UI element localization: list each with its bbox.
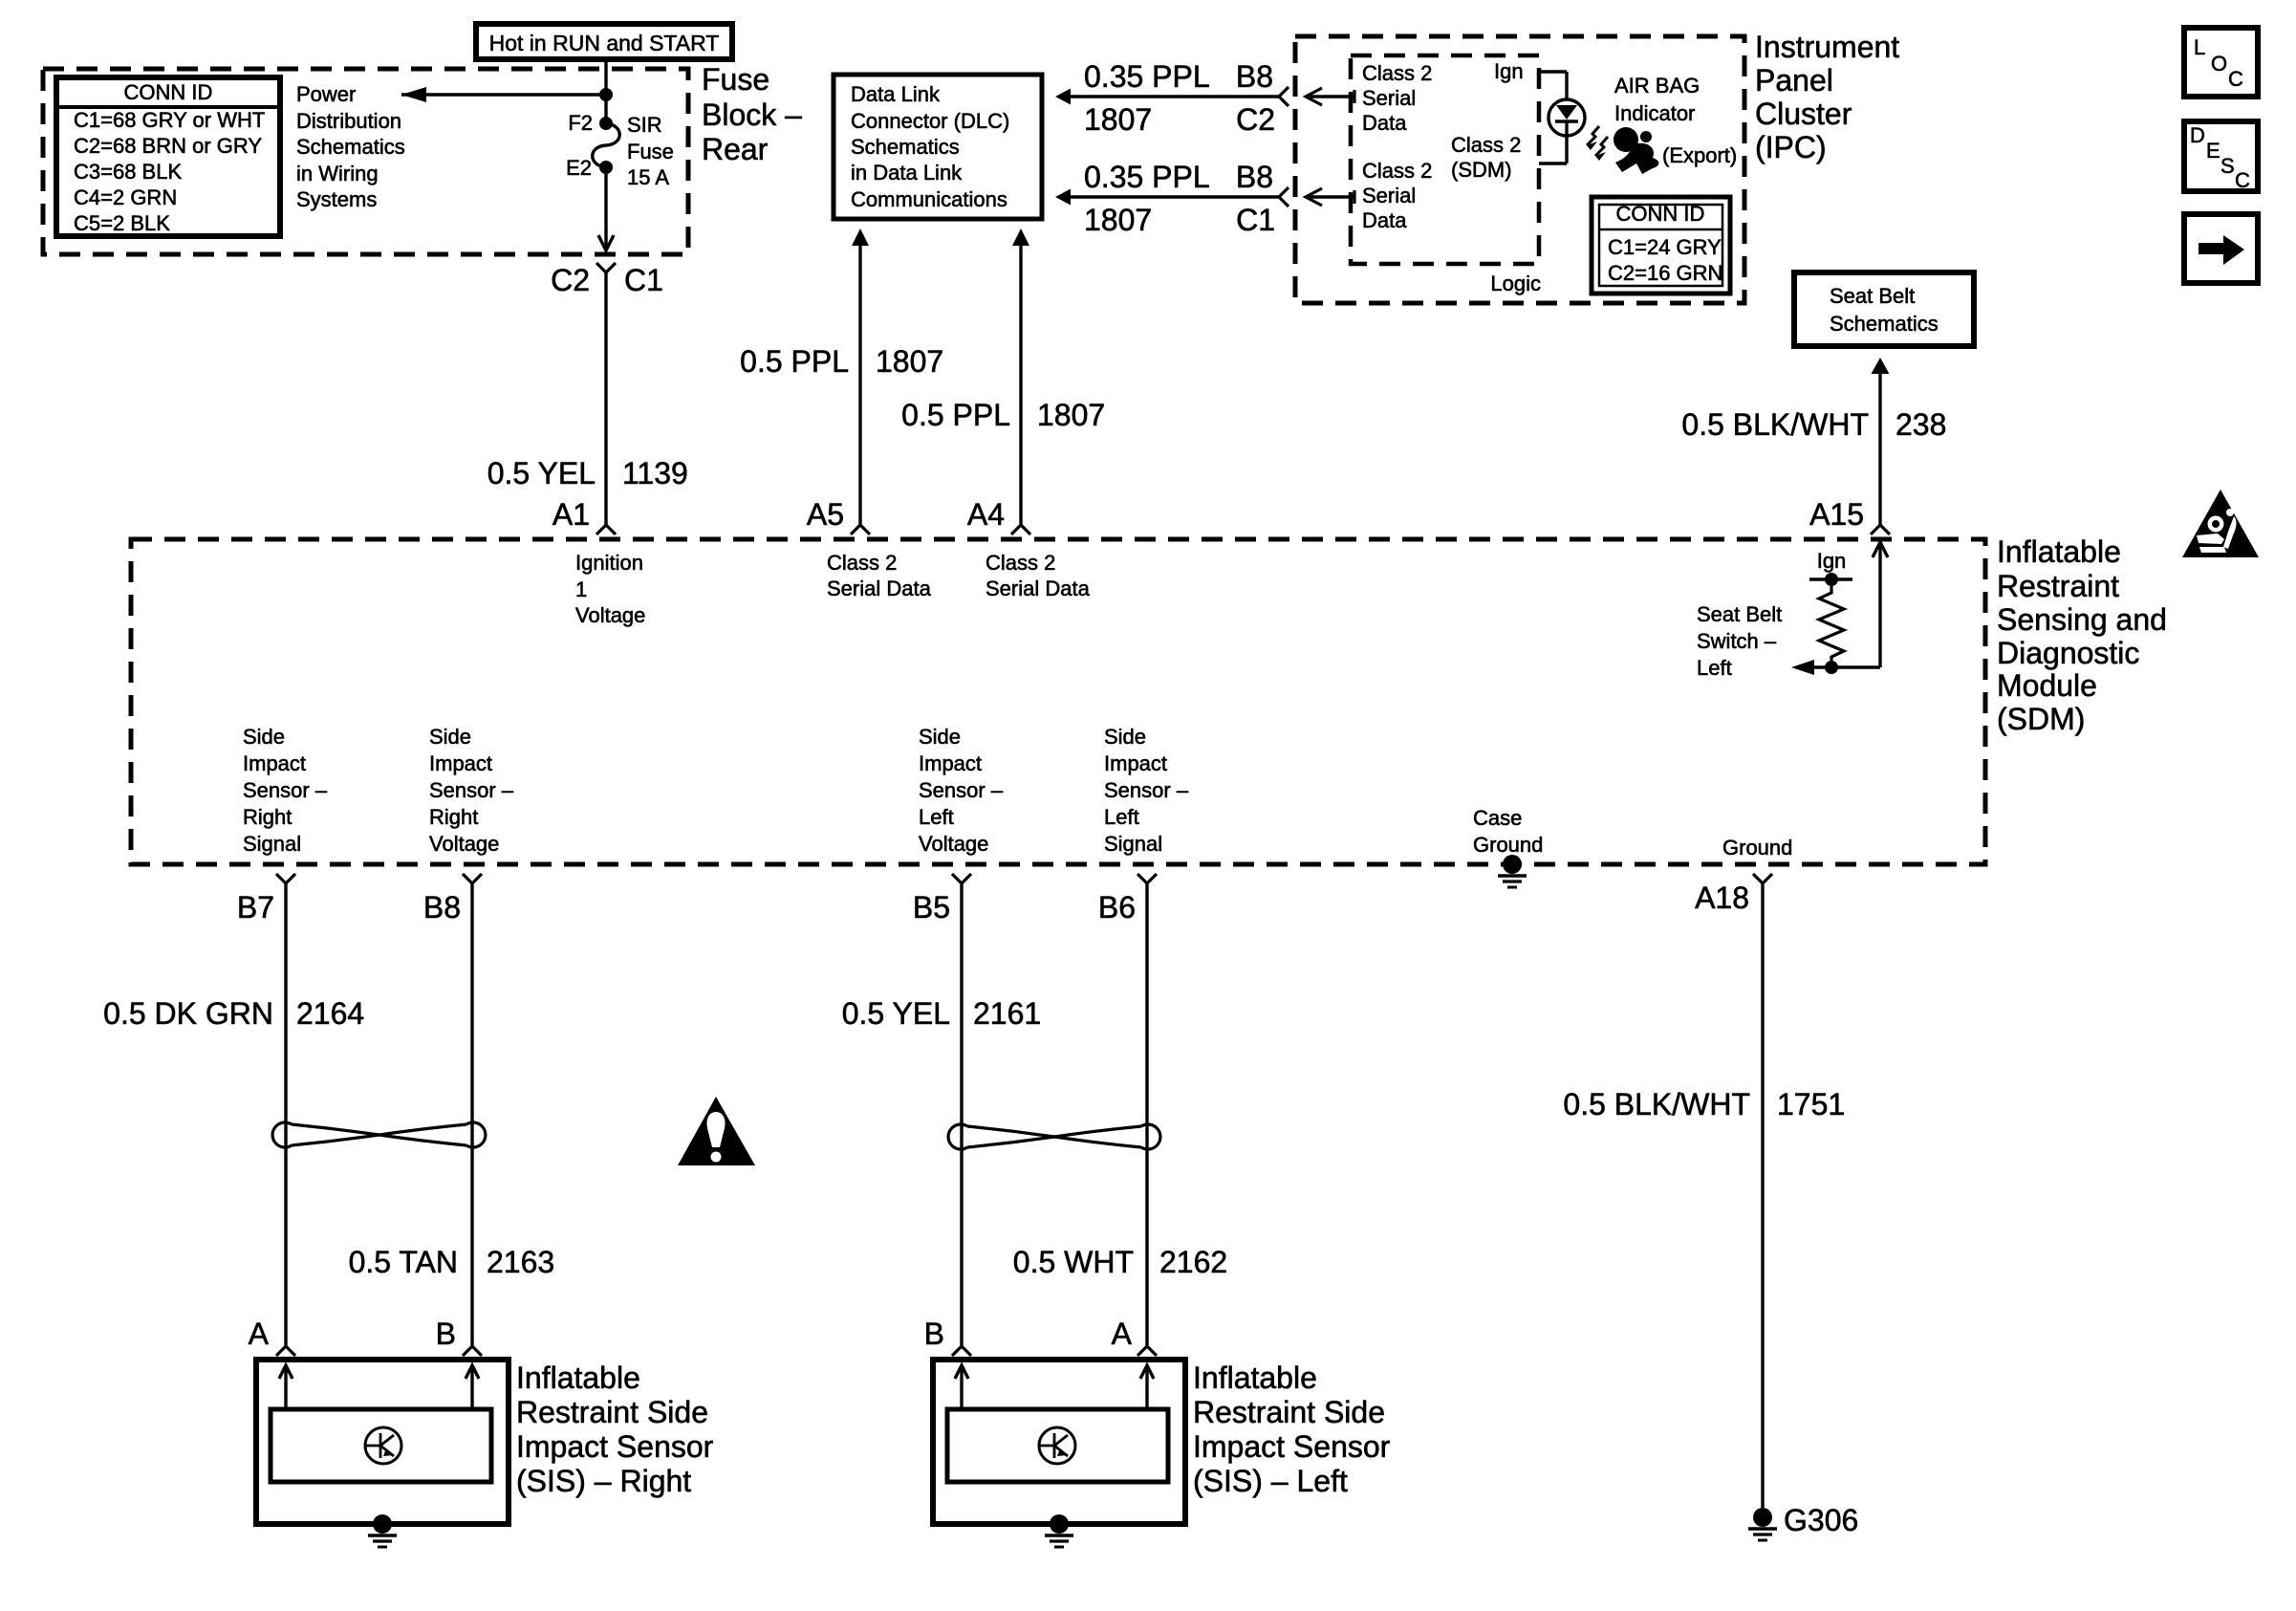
wire 1807 PPL from SDM A5 to DLC (858, 244, 861, 525)
wire 1807 PPL from SDM A4 to DLC (1019, 244, 1022, 525)
svg-text:0.5 TAN: 0.5 TAN (349, 1245, 458, 1279)
svg-text:in Wiring: in Wiring (296, 162, 379, 185)
svg-text:Restraint Side: Restraint Side (516, 1395, 708, 1429)
wire 2161 YEL B5 to SIS left B (960, 883, 963, 1345)
svg-text:in Data Link: in Data Link (851, 161, 963, 185)
svg-text:Module: Module (1997, 668, 2097, 703)
SDM internal up arrow at A15 (1878, 542, 1881, 667)
svg-text:Panel: Panel (1755, 63, 1833, 98)
IPC CONN ID table (1592, 197, 1730, 294)
SIS right internal arrows (284, 1367, 287, 1409)
wire 1807 PPL from IPC C2 to DLC (top) (1067, 95, 1279, 98)
svg-text:SIR: SIR (627, 113, 662, 137)
svg-text:2163: 2163 (487, 1245, 554, 1279)
svg-text:Sensor –: Sensor – (1104, 778, 1189, 802)
svg-text:Restraint: Restraint (1997, 569, 2119, 603)
case ground symbol (1503, 855, 1522, 874)
fuse terminal E2 (599, 161, 613, 174)
svg-text:Serial Data: Serial Data (986, 577, 1091, 600)
pin A5 fork (851, 525, 870, 534)
svg-text:(SDM): (SDM) (1451, 158, 1512, 182)
Seat Belt Schematics box (1794, 272, 1974, 346)
svg-text:Impact Sensor: Impact Sensor (516, 1429, 714, 1464)
IPC logic dashed box (1351, 55, 1539, 264)
svg-text:Communications: Communications (851, 187, 1007, 211)
svg-text:Schematics: Schematics (1830, 312, 1939, 336)
svg-text:A: A (1112, 1317, 1133, 1351)
svg-text:0.5 YEL: 0.5 YEL (487, 456, 596, 490)
svg-text:1139: 1139 (622, 456, 688, 490)
svg-text:Seat Belt: Seat Belt (1830, 284, 1915, 308)
svg-text:L: L (2194, 35, 2205, 59)
Inflatable Restraint Side Impact Sensor (SIS) Right box (256, 1360, 509, 1524)
svg-text:Schematics: Schematics (296, 135, 405, 159)
twisted pair (right sensor) (272, 1122, 292, 1147)
pin B7 fork (276, 874, 295, 883)
air bag indicator icon (1614, 127, 1638, 152)
svg-text:B8: B8 (423, 890, 461, 925)
ground G306 (1753, 1508, 1772, 1527)
svg-text:Voltage: Voltage (575, 603, 645, 627)
pin A1 fork (596, 525, 616, 534)
pin A18 fork (1753, 874, 1772, 883)
svg-text:C3=68 BLK: C3=68 BLK (74, 160, 182, 184)
svg-text:Sensor –: Sensor – (243, 778, 328, 802)
Instrument Panel Cluster dashed outline (1295, 36, 1744, 303)
svg-text:AIR BAG: AIR BAG (1614, 74, 1700, 98)
svg-text:CONN ID: CONN ID (124, 80, 213, 104)
wire lamp to Class 2 (SDM) (1565, 136, 1568, 163)
svg-text:E2: E2 (566, 156, 592, 180)
svg-text:C: C (2235, 168, 2250, 192)
svg-text:0.5 WHT: 0.5 WHT (1013, 1245, 1134, 1279)
pin A4 fork (1011, 525, 1030, 534)
svg-text:Systems: Systems (296, 187, 377, 211)
svg-text:C2: C2 (1236, 102, 1275, 137)
svg-text:Side: Side (919, 725, 961, 749)
svg-text:B8: B8 (1236, 160, 1273, 194)
svg-text:A5: A5 (807, 497, 844, 532)
Data Link Connector (DLC) box (834, 75, 1042, 219)
svg-text:A15: A15 (1809, 497, 1864, 532)
fuse block CONN ID table (56, 77, 280, 236)
svg-text:Side: Side (243, 725, 285, 749)
svg-text:Serial: Serial (1362, 86, 1416, 110)
fuse block dashed outline (43, 69, 688, 254)
svg-text:Indicator: Indicator (1614, 101, 1695, 125)
svg-text:Voltage: Voltage (919, 832, 988, 856)
node junction at fuse feed (599, 88, 613, 101)
svg-text:Sensor –: Sensor – (919, 778, 1004, 802)
IPC side arrow (top) (1310, 95, 1354, 98)
svg-text:C: C (2228, 67, 2243, 91)
svg-text:C5=2 BLK: C5=2 BLK (74, 211, 170, 235)
svg-text:1: 1 (575, 577, 587, 601)
SIS left pin A fork (1137, 1346, 1157, 1356)
svg-text:Schematics: Schematics (851, 135, 960, 159)
svg-text:C2: C2 (551, 263, 590, 297)
connector C2/C1 fork (596, 263, 616, 272)
wire resistor to A15 riser with arrow (1796, 665, 1880, 668)
power feed box "Hot in RUN and START" (476, 24, 732, 59)
svg-text:B5: B5 (913, 890, 950, 925)
svg-text:Ignition: Ignition (575, 551, 643, 575)
svg-text:C2=68 BRN or GRY: C2=68 BRN or GRY (74, 134, 262, 158)
SIS left case ground (1050, 1514, 1069, 1534)
SIS left sensor symbol (1039, 1427, 1075, 1464)
node at resistor bottom (1825, 661, 1838, 674)
svg-text:Left: Left (919, 805, 954, 829)
svg-text:S: S (2220, 154, 2235, 178)
forward arrow nav box (2184, 214, 2258, 283)
pin B8 fork (463, 874, 482, 883)
svg-text:Connector (DLC): Connector (DLC) (851, 109, 1009, 133)
svg-text:B6: B6 (1098, 890, 1136, 925)
svg-text:Switch –: Switch – (1697, 629, 1777, 653)
SIS right sensor symbol (365, 1427, 401, 1464)
svg-text:Ground: Ground (1722, 836, 1792, 860)
svg-text:2162: 2162 (1159, 1245, 1227, 1279)
svg-text:Voltage: Voltage (429, 832, 499, 856)
svg-text:Fuse: Fuse (627, 140, 674, 163)
pin A15 fork (1871, 525, 1890, 534)
LOC nav box (2184, 28, 2258, 97)
svg-text:(IPC): (IPC) (1755, 130, 1827, 164)
wire 238 BLK/WHT from SDM A15 to seat belt schematics (1878, 372, 1881, 525)
resistor seat belt switch-left (1819, 586, 1844, 667)
wire 1807 PPL from IPC C1 to DLC (bottom) (1067, 195, 1279, 198)
svg-text:Impact Sensor: Impact Sensor (1193, 1429, 1391, 1464)
svg-text:Ign: Ign (1494, 59, 1524, 83)
svg-text:Impact: Impact (429, 751, 492, 775)
wire 2163 TAN B8 to SIS right B (470, 883, 473, 1345)
lamp light rays (1587, 126, 1599, 145)
svg-text:Case: Case (1473, 806, 1522, 830)
svg-text:CONN ID: CONN ID (1616, 202, 1705, 226)
svg-text:A4: A4 (967, 497, 1005, 532)
svg-text:C1=68 GRY or WHT: C1=68 GRY or WHT (74, 108, 265, 132)
svg-text:C1=24 GRY: C1=24 GRY (1608, 235, 1722, 259)
svg-text:Restraint Side: Restraint Side (1193, 1395, 1385, 1429)
AIR BAG indicator lamp (1549, 99, 1585, 136)
svg-text:Ign: Ign (1817, 549, 1847, 573)
svg-text:Fuse: Fuse (702, 62, 769, 97)
svg-text:B7: B7 (237, 890, 274, 925)
svg-text:B: B (924, 1317, 944, 1351)
svg-text:Class 2: Class 2 (827, 551, 897, 575)
SIS left pin B fork (952, 1346, 971, 1356)
svg-text:238: 238 (1895, 407, 1946, 442)
wire from Hot box to fuse (604, 59, 607, 123)
svg-text:Data Link: Data Link (851, 82, 941, 106)
svg-text:Right: Right (429, 805, 478, 829)
svg-text:Right: Right (243, 805, 292, 829)
svg-text:Inflatable: Inflatable (1997, 534, 2121, 569)
svg-text:Side: Side (429, 725, 471, 749)
svg-text:C1: C1 (624, 263, 663, 297)
svg-text:2164: 2164 (296, 996, 364, 1031)
svg-text:Inflatable: Inflatable (1193, 1361, 1317, 1395)
wire 2162 WHT B6 to SIS left A (1145, 883, 1148, 1345)
svg-text:Diagnostic: Diagnostic (1997, 636, 2139, 670)
svg-text:C4=2 GRN: C4=2 GRN (74, 185, 177, 209)
svg-text:(SIS) – Right: (SIS) – Right (516, 1464, 691, 1498)
wire fuse output (604, 167, 607, 247)
svg-text:Class 2: Class 2 (1362, 61, 1432, 85)
svg-text:0.5 DK GRN: 0.5 DK GRN (103, 996, 273, 1031)
svg-text:Left: Left (1104, 805, 1139, 829)
svg-text:Sensing and: Sensing and (1997, 602, 2167, 637)
svg-text:Class 2: Class 2 (1451, 133, 1521, 157)
svg-text:Data: Data (1362, 208, 1407, 232)
svg-text:C2=16 GRN: C2=16 GRN (1608, 261, 1722, 285)
svg-text:A18: A18 (1695, 881, 1749, 915)
fuse SIR 15A terminal F2 (599, 117, 613, 130)
svg-text:Side: Side (1104, 725, 1146, 749)
svg-text:Power: Power (296, 82, 356, 106)
svg-text:Instrument: Instrument (1755, 30, 1899, 64)
svg-text:Serial Data: Serial Data (827, 577, 932, 600)
svg-text:Impact: Impact (919, 751, 982, 775)
wire Ign to indicator lamp (1539, 70, 1567, 73)
svg-text:(SIS) – Left: (SIS) – Left (1193, 1464, 1348, 1498)
svg-text:Data: Data (1362, 111, 1407, 135)
svg-text:G306: G306 (1784, 1503, 1858, 1537)
fuse element (593, 123, 620, 167)
SIS right pin B fork (463, 1346, 482, 1356)
svg-text:Sensor –: Sensor – (429, 778, 514, 802)
svg-text:Inflatable: Inflatable (516, 1361, 640, 1395)
svg-text:1807: 1807 (1037, 398, 1105, 432)
warning triangle (678, 1097, 755, 1165)
svg-text:Signal: Signal (243, 832, 301, 856)
svg-text:Seat Belt: Seat Belt (1697, 602, 1782, 626)
Inflatable Restraint Sensing and Diagnostic Module dashed outline (131, 539, 1985, 864)
svg-text:Logic: Logic (1490, 272, 1541, 295)
svg-text:Serial: Serial (1362, 184, 1416, 207)
wire 2164 DK GRN B7 to SIS right A (284, 883, 287, 1345)
svg-text:Impact: Impact (1104, 751, 1167, 775)
twisted pair (left sensor) (948, 1124, 967, 1149)
pin B6 fork (1137, 874, 1157, 883)
svg-text:(SDM): (SDM) (1997, 702, 2085, 736)
svg-text:0.5 YEL: 0.5 YEL (842, 996, 950, 1031)
airbag warning triangle (2182, 490, 2259, 557)
svg-text:Left: Left (1697, 656, 1732, 680)
svg-text:E: E (2206, 139, 2220, 163)
svg-text:Distribution: Distribution (296, 109, 401, 133)
svg-text:A1: A1 (552, 497, 590, 532)
SIS right case ground (373, 1514, 392, 1534)
svg-text:A: A (249, 1317, 270, 1351)
svg-text:(Export): (Export) (1662, 143, 1737, 167)
SIS left internal arrows (960, 1367, 963, 1409)
svg-text:Impact: Impact (243, 751, 306, 775)
svg-text:D: D (2190, 123, 2205, 147)
svg-text:B: B (436, 1317, 456, 1351)
svg-text:Class 2: Class 2 (1362, 159, 1432, 183)
pin B5 fork (952, 874, 971, 883)
svg-text:Cluster: Cluster (1755, 97, 1852, 131)
wire 1751 BLK/WHT A18 to G306 (1761, 883, 1764, 1508)
svg-text:1807: 1807 (876, 344, 943, 379)
svg-text:1807: 1807 (1084, 203, 1152, 237)
svg-text:O: O (2211, 52, 2227, 76)
svg-text:Class 2: Class 2 (986, 551, 1055, 575)
wire to power distribution with arrow (401, 93, 606, 96)
svg-text:0.35 PPL: 0.35 PPL (1084, 160, 1210, 194)
svg-text:Hot in RUN and START: Hot in RUN and START (489, 31, 720, 55)
svg-text:C1: C1 (1236, 203, 1275, 237)
svg-text:0.5 PPL: 0.5 PPL (740, 344, 849, 379)
svg-text:Ground: Ground (1473, 833, 1543, 857)
svg-text:Signal: Signal (1104, 832, 1162, 856)
svg-text:0.5 BLK/WHT: 0.5 BLK/WHT (1563, 1087, 1750, 1121)
svg-text:0.5 BLK/WHT: 0.5 BLK/WHT (1681, 407, 1869, 442)
SIS right pin A fork (276, 1346, 295, 1356)
svg-text:B8: B8 (1236, 59, 1273, 94)
svg-text:0.5 PPL: 0.5 PPL (901, 398, 1010, 432)
svg-text:Rear: Rear (702, 132, 769, 166)
DESC nav box (2184, 121, 2258, 191)
wire 1139 YEL from fuse to SDM A1 (604, 272, 607, 525)
svg-text:15 A: 15 A (627, 165, 669, 189)
svg-text:Block –: Block – (702, 98, 802, 132)
IPC side arrow (bottom) (1310, 195, 1354, 198)
svg-text:1807: 1807 (1084, 102, 1152, 137)
svg-text:F2: F2 (568, 111, 593, 135)
svg-text:2161: 2161 (973, 996, 1041, 1031)
svg-text:1751: 1751 (1777, 1087, 1845, 1121)
Inflatable Restraint Side Impact Sensor (SIS) Left box (933, 1360, 1185, 1524)
svg-text:0.35 PPL: 0.35 PPL (1084, 59, 1210, 94)
